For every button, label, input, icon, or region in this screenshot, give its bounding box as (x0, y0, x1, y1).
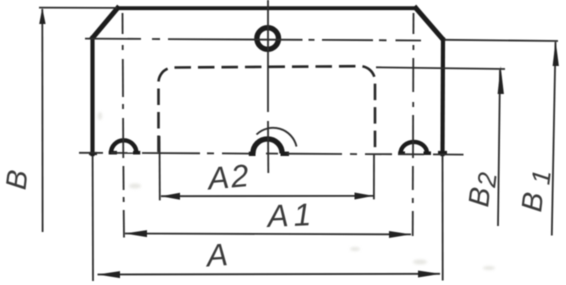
svg-text:B2: B2 (463, 170, 503, 209)
svg-text:B: B (1, 168, 35, 191)
svg-text:B1: B1 (516, 167, 557, 214)
svg-text:A2: A2 (204, 157, 250, 197)
svg-text:A1: A1 (265, 196, 312, 234)
svg-text:A: A (203, 236, 228, 274)
